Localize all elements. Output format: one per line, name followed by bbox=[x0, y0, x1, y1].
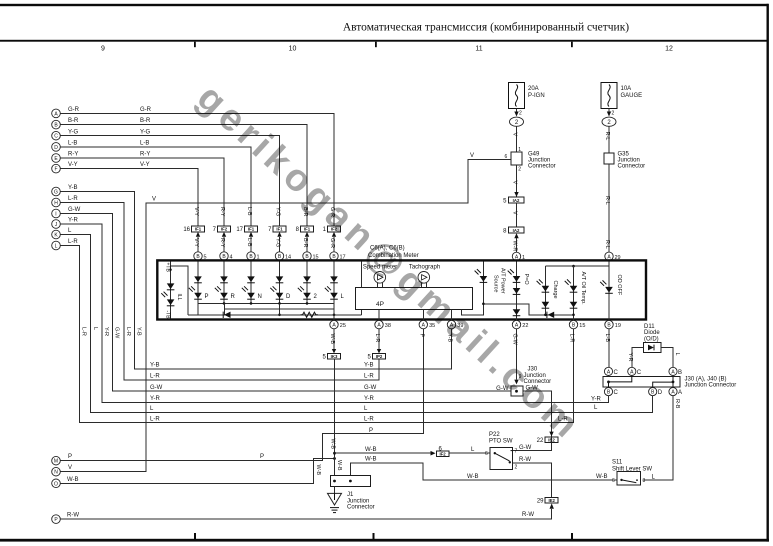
svg-text:ILL: ILL bbox=[176, 294, 182, 301]
internal top bus from A29 bbox=[545, 265, 609, 267]
svg-text:L-B: L-B bbox=[604, 334, 610, 343]
wire bottom to 4P box bbox=[361, 309, 363, 314]
svg-text:5: 5 bbox=[503, 199, 507, 205]
svg-text:P: P bbox=[369, 428, 373, 434]
wire R-B junction AA to S11 pin 3 bbox=[643, 396, 673, 480]
wire R-L G35 to meter A29 bbox=[608, 164, 610, 252]
svg-text:H: H bbox=[54, 201, 58, 207]
svg-text:F: F bbox=[54, 167, 57, 173]
svg-text:V-Y: V-Y bbox=[193, 207, 199, 216]
svg-text:W-B: W-B bbox=[330, 439, 336, 450]
junction connector G49 bbox=[505, 147, 556, 173]
svg-text:22: 22 bbox=[522, 323, 528, 329]
svg-text:P-IGN: P-IGN bbox=[528, 93, 545, 99]
wire G-W J30 to 22 IE2 bbox=[513, 391, 552, 450]
inline connector 5 IP2 bbox=[367, 349, 385, 361]
svg-text:V: V bbox=[512, 181, 518, 185]
internal tap N column bbox=[224, 303, 226, 314]
svg-text:L: L bbox=[55, 244, 58, 250]
junction dot W-B branch bbox=[333, 452, 336, 455]
fuse 2 pin arrow bbox=[608, 109, 610, 113]
svg-text:G-R: G-R bbox=[140, 107, 152, 113]
svg-text:R: R bbox=[231, 294, 236, 300]
svg-text:L: L bbox=[364, 406, 368, 412]
connector pin C bbox=[52, 131, 61, 140]
svg-text:20A: 20A bbox=[528, 86, 539, 92]
svg-text:G-W: G-W bbox=[364, 385, 377, 391]
svg-text:L-R: L-R bbox=[68, 239, 78, 245]
wire L-B from D to column 3 bbox=[60, 147, 251, 226]
wire R-L fuse to G35 bbox=[608, 126, 610, 153]
junction connector J1 bbox=[330, 476, 374, 511]
svg-text:Y-B: Y-B bbox=[364, 362, 373, 368]
svg-text:M: M bbox=[54, 459, 58, 465]
connector pin A bbox=[52, 109, 61, 118]
meter pin B15 top bbox=[303, 252, 311, 260]
inline connector 5 IK3 bbox=[322, 349, 340, 361]
speedometer bbox=[363, 264, 397, 287]
wire W-R IA2 to meter A1 bbox=[516, 238, 518, 252]
svg-text:2: 2 bbox=[519, 111, 522, 117]
svg-text:6: 6 bbox=[612, 478, 615, 484]
svg-text:G-W: G-W bbox=[114, 327, 120, 339]
ground symbol J1 bbox=[328, 487, 342, 513]
wire R-Y from E to column 2 bbox=[60, 158, 224, 226]
inline connector 17 IF1 column L-B bbox=[236, 207, 257, 252]
svg-text:IF1: IF1 bbox=[195, 227, 202, 232]
svg-text:11: 11 bbox=[475, 46, 482, 53]
svg-text:L: L bbox=[594, 405, 598, 411]
indicator lamp L bbox=[325, 262, 345, 303]
svg-text:L-B: L-B bbox=[68, 141, 77, 147]
svg-text:L-R: L-R bbox=[150, 373, 160, 379]
wire W-B IK3 to J1 bbox=[334, 359, 336, 476]
ruler tick 1 bbox=[194, 42, 196, 48]
wire G-R from A to column 6 bbox=[60, 113, 334, 226]
svg-text:R-W: R-W bbox=[67, 513, 79, 519]
svg-text:IF2: IF2 bbox=[221, 227, 228, 232]
meter pin A38 bbox=[375, 320, 383, 328]
svg-text:IF2: IF2 bbox=[439, 451, 446, 456]
svg-text:L-B: L-B bbox=[246, 238, 252, 247]
svg-text:V-Y: V-Y bbox=[140, 162, 150, 168]
svg-text:10: 10 bbox=[289, 46, 297, 53]
junction connector J30 bbox=[496, 367, 551, 396]
svg-text:8: 8 bbox=[296, 227, 300, 233]
inline connector 8 IA2 bbox=[503, 227, 524, 238]
bottom tick 2 bbox=[373, 533, 375, 539]
svg-text:Y-G: Y-G bbox=[140, 129, 150, 135]
connector pin D bbox=[52, 143, 61, 152]
svg-text:(O/D): (O/D) bbox=[644, 336, 659, 342]
svg-text:P=O: P=O bbox=[523, 274, 529, 286]
svg-text:22: 22 bbox=[537, 438, 544, 444]
svg-text:PTO SW: PTO SW bbox=[489, 439, 513, 445]
svg-text:IE2: IE2 bbox=[548, 498, 555, 503]
svg-text:Junction Connector: Junction Connector bbox=[685, 383, 737, 389]
lamp A/T oil temp bbox=[565, 266, 586, 320]
svg-text:G-W: G-W bbox=[150, 385, 163, 391]
svg-text:L: L bbox=[150, 406, 154, 412]
svg-text:W-B: W-B bbox=[365, 447, 377, 453]
svg-text:D11: D11 bbox=[644, 324, 655, 330]
svg-text:Connector: Connector bbox=[347, 505, 375, 511]
svg-text:Y-R: Y-R bbox=[68, 218, 78, 224]
svg-text:A/T Oil Temp.: A/T Oil Temp. bbox=[580, 272, 586, 306]
svg-text:1: 1 bbox=[518, 147, 521, 153]
switch P22 PTO SW bbox=[485, 432, 517, 470]
svg-text:G-R: G-R bbox=[68, 107, 80, 113]
wire Y-R D11 to junction AC2 bbox=[632, 348, 644, 368]
svg-text:Y-R: Y-R bbox=[591, 396, 601, 402]
svg-text:B-R: B-R bbox=[68, 118, 79, 124]
svg-text:Connector: Connector bbox=[618, 164, 646, 170]
svg-text:IF1: IF1 bbox=[276, 227, 283, 232]
svg-text:Source: Source bbox=[493, 275, 499, 292]
svg-text:5: 5 bbox=[367, 355, 371, 361]
wire B-R from B to column 5 bbox=[60, 125, 307, 226]
svg-text:2: 2 bbox=[612, 111, 615, 117]
bottom tick 1 bbox=[194, 533, 196, 539]
svg-text:7: 7 bbox=[213, 227, 217, 233]
svg-text:V: V bbox=[152, 196, 156, 202]
fuse 10A GAUGE bbox=[601, 83, 642, 109]
indicator lamp P bbox=[189, 262, 209, 303]
svg-text:R-L: R-L bbox=[604, 240, 610, 249]
svg-text:29: 29 bbox=[537, 498, 544, 504]
frame ruler line bbox=[0, 40, 769, 42]
bottom tick 3 bbox=[571, 533, 573, 539]
svg-text:17: 17 bbox=[236, 227, 243, 233]
connector pin G bbox=[52, 187, 61, 196]
connector pin P bbox=[52, 515, 61, 524]
wire G-W from I to J30 junction connector bbox=[60, 214, 511, 392]
svg-text:15: 15 bbox=[579, 323, 585, 329]
svg-text:IA2: IA2 bbox=[513, 228, 520, 233]
meter pin B5 bbox=[194, 252, 202, 260]
meter pin B15 bottom bbox=[569, 320, 577, 328]
internal middle wire bbox=[225, 308, 335, 310]
svg-text:V: V bbox=[512, 133, 518, 137]
oval connector 2 bbox=[602, 117, 616, 126]
switch S11 shift lever bbox=[612, 460, 652, 485]
svg-text:IK3: IK3 bbox=[331, 354, 338, 359]
svg-text:R-W: R-W bbox=[522, 512, 534, 518]
wire L-R A38 to connector IP2 bbox=[378, 329, 380, 350]
connector pin I bbox=[52, 209, 61, 218]
svg-text:5: 5 bbox=[322, 355, 326, 361]
svg-text:A/T Power: A/T Power bbox=[500, 268, 506, 294]
svg-text:-TB: -TB bbox=[165, 311, 171, 320]
wire Y-B from G to A39 bbox=[60, 192, 451, 369]
svg-text:W-B: W-B bbox=[467, 474, 479, 480]
wire L-R from L to meter B15 bbox=[60, 246, 573, 423]
svg-text:Y-B: Y-B bbox=[68, 185, 77, 191]
wire W-B from O to J1 bbox=[60, 459, 334, 484]
diode left-pointing internal bbox=[222, 312, 224, 318]
svg-text:O: O bbox=[54, 481, 58, 487]
svg-text:V: V bbox=[68, 465, 72, 471]
svg-text:L: L bbox=[341, 294, 345, 300]
wire L-B B19 to junction AC bbox=[608, 329, 610, 368]
svg-text:R-Y: R-Y bbox=[68, 152, 78, 158]
svg-text:C: C bbox=[614, 390, 619, 396]
meter pin B14 bbox=[275, 252, 283, 260]
wire 4P to A35 bbox=[422, 309, 424, 320]
svg-text:W-R: W-R bbox=[512, 241, 518, 252]
svg-text:8: 8 bbox=[503, 228, 507, 234]
diode left-pointing internal right bbox=[546, 312, 548, 318]
svg-text:9: 9 bbox=[101, 46, 105, 53]
svg-text:2: 2 bbox=[314, 294, 318, 300]
inline connector 8 IF1 column B-R bbox=[296, 207, 314, 252]
svg-text:C: C bbox=[637, 370, 642, 376]
ruler tick 3 bbox=[571, 42, 573, 48]
svg-text:gerikogan@gmail.com: gerikogan@gmail.com bbox=[189, 77, 590, 449]
svg-text:L-R: L-R bbox=[81, 327, 87, 336]
watermark bbox=[189, 77, 590, 449]
lamp return bus bbox=[198, 302, 334, 304]
meter pin B19 bbox=[605, 320, 613, 328]
svg-text:L-R: L-R bbox=[364, 373, 374, 379]
connector pin L bbox=[52, 241, 61, 250]
meter pin A29 bbox=[605, 252, 613, 260]
svg-text:L: L bbox=[68, 228, 72, 234]
svg-text:B-R: B-R bbox=[140, 118, 151, 124]
svg-text:2: 2 bbox=[518, 167, 521, 173]
svg-text:L: L bbox=[471, 447, 475, 453]
connector 4P box bbox=[356, 288, 473, 310]
svg-text:R-Y: R-Y bbox=[219, 207, 225, 217]
fuse 20A P-IGN bbox=[509, 83, 545, 109]
junction connector G35 bbox=[604, 152, 645, 170]
svg-text:G-W: G-W bbox=[519, 445, 532, 451]
wire L-R from H to A38 bbox=[60, 203, 379, 380]
svg-text:V: V bbox=[512, 211, 518, 215]
svg-text:L: L bbox=[652, 474, 656, 480]
svg-text:Y-B: Y-B bbox=[150, 362, 159, 368]
inline connector 29 IE2 bbox=[537, 497, 558, 509]
svg-text:IF1: IF1 bbox=[304, 227, 311, 232]
indicator lamp 2 bbox=[298, 262, 318, 303]
svg-text:N: N bbox=[258, 294, 262, 300]
svg-text:Y-R: Y-R bbox=[627, 353, 633, 362]
svg-text:L-R: L-R bbox=[364, 416, 374, 422]
connector pin K bbox=[52, 230, 61, 239]
svg-text:A: A bbox=[678, 390, 682, 396]
svg-text:GAUGE: GAUGE bbox=[621, 93, 643, 99]
wire L IF2 to P22 pin 6 bbox=[449, 452, 490, 454]
wire P from M to A35 bbox=[60, 329, 423, 461]
svg-text:7: 7 bbox=[268, 227, 272, 233]
svg-text:16: 16 bbox=[183, 227, 190, 233]
svg-text:D: D bbox=[286, 294, 291, 300]
meter pin A22 bbox=[512, 320, 520, 328]
wire W-B A25 to connector IK3 bbox=[333, 329, 335, 350]
svg-text:L: L bbox=[92, 327, 98, 330]
wire L D11 to junction AB bbox=[661, 348, 673, 368]
svg-text:L-R: L-R bbox=[68, 196, 78, 202]
svg-text:P: P bbox=[260, 454, 264, 460]
svg-text:G: G bbox=[54, 190, 58, 196]
svg-text:P: P bbox=[205, 294, 209, 300]
connector pin M bbox=[52, 456, 61, 465]
svg-text:6: 6 bbox=[485, 451, 488, 457]
svg-text:B-R: B-R bbox=[302, 238, 308, 248]
svg-text:7: 7 bbox=[515, 449, 518, 455]
wire Y-R from J to junction J40 pin C bbox=[60, 224, 608, 402]
svg-text:C: C bbox=[614, 370, 619, 376]
svg-text:L: L bbox=[674, 353, 680, 356]
svg-text:J30 (A), J40 (B): J30 (A), J40 (B) bbox=[685, 376, 727, 382]
svg-text:Y-R: Y-R bbox=[103, 327, 109, 336]
inline connector 7 IF2 column R-Y bbox=[213, 207, 231, 252]
connector pin J bbox=[52, 220, 61, 229]
svg-text:C: C bbox=[54, 134, 58, 140]
svg-text:L-R: L-R bbox=[150, 416, 160, 422]
connector pin F bbox=[52, 164, 61, 173]
connector pin B bbox=[52, 120, 61, 129]
connector pin O bbox=[52, 479, 61, 488]
svg-text:G-W: G-W bbox=[68, 207, 81, 213]
svg-text:Y-G: Y-G bbox=[274, 207, 280, 216]
svg-text:W-B: W-B bbox=[329, 334, 335, 345]
svg-text:2: 2 bbox=[515, 464, 518, 470]
svg-text:L-R: L-R bbox=[374, 334, 380, 343]
resistor internal bbox=[301, 312, 318, 317]
inline connector 5 IA2 bbox=[503, 192, 524, 205]
combination meter C6 box bbox=[157, 260, 646, 319]
svg-text:IF1: IF1 bbox=[248, 227, 255, 232]
indicator lamp D bbox=[270, 262, 291, 303]
svg-text:R-W: R-W bbox=[519, 457, 531, 463]
svg-text:W-B: W-B bbox=[336, 460, 342, 471]
svg-text:Diode: Diode bbox=[644, 330, 660, 336]
wire V-Y from F to column 1 bbox=[60, 169, 198, 226]
junction dot bottom wire at L column bbox=[333, 314, 336, 317]
svg-text:6: 6 bbox=[505, 154, 508, 160]
svg-text:D: D bbox=[658, 390, 663, 396]
diode chain A1 to A22 bbox=[508, 262, 529, 320]
wire 4P to A39 bbox=[451, 309, 453, 320]
svg-text:P: P bbox=[68, 454, 72, 460]
svg-text:4P: 4P bbox=[376, 301, 384, 308]
illumination column +TB bbox=[161, 262, 182, 320]
wire W-B branch to 6 IF2 bbox=[335, 452, 431, 454]
meter pin A39 bbox=[447, 320, 455, 328]
svg-text:L-B: L-B bbox=[140, 141, 149, 147]
connector pin E bbox=[52, 154, 61, 163]
indicator lamp R bbox=[215, 262, 236, 303]
svg-text:I: I bbox=[55, 212, 56, 218]
wire R-W from P to connector 29 IE2 bbox=[60, 509, 551, 519]
svg-text:+TB: +TB bbox=[165, 263, 171, 273]
meter pin A25 bbox=[330, 320, 338, 328]
svg-text:Автоматическая трансмиссия (ко: Автоматическая трансмиссия (комбинирован… bbox=[343, 22, 629, 34]
svg-text:P: P bbox=[419, 334, 425, 338]
svg-text:R-L: R-L bbox=[604, 132, 610, 141]
svg-text:IP2: IP2 bbox=[376, 354, 383, 359]
connector pin N bbox=[52, 467, 61, 476]
wire V from N to G49 pin 6 bbox=[60, 159, 511, 471]
internal wire 4P to oil temp column bbox=[462, 304, 574, 315]
internal bottom wire with diode bbox=[188, 314, 361, 316]
svg-text:W-B: W-B bbox=[67, 477, 79, 483]
svg-text:Y-B: Y-B bbox=[136, 327, 142, 336]
inline connector 16 IF1 column V-Y bbox=[183, 207, 204, 252]
fuse pin 2 arrow bbox=[516, 109, 518, 113]
svg-text:19: 19 bbox=[615, 323, 621, 329]
inline connector 22 IE2 bbox=[537, 432, 558, 444]
oval connector 2 bbox=[510, 117, 524, 126]
wire V fuse to G49 bbox=[516, 126, 518, 152]
svg-text:D: D bbox=[54, 145, 58, 151]
svg-text:S11: S11 bbox=[612, 460, 623, 466]
svg-text:Y-R: Y-R bbox=[364, 396, 374, 402]
svg-text:V-Y: V-Y bbox=[68, 162, 78, 168]
svg-text:25: 25 bbox=[340, 323, 346, 329]
svg-text:Junction: Junction bbox=[347, 498, 369, 504]
diode D11 O/D bbox=[644, 324, 662, 353]
junction connector J30A J40B bbox=[603, 367, 736, 396]
inline connector 1 IF2 column G-R bbox=[323, 207, 341, 252]
lamp OD OFF bbox=[600, 262, 622, 320]
svg-text:Y-G: Y-G bbox=[68, 129, 78, 135]
svg-text:G-W: G-W bbox=[512, 334, 518, 346]
svg-text:P22: P22 bbox=[489, 432, 500, 438]
svg-text:V: V bbox=[470, 153, 474, 159]
svg-text:Y-G: Y-G bbox=[274, 238, 280, 247]
indicator lamp N bbox=[242, 262, 262, 303]
svg-text:L-R: L-R bbox=[569, 334, 575, 343]
meter pin B1 bbox=[247, 252, 255, 260]
svg-text:38: 38 bbox=[385, 323, 391, 329]
lamp charge bbox=[537, 266, 558, 316]
wire V IA2 to IA2 bbox=[516, 203, 518, 227]
svg-text:J1: J1 bbox=[347, 492, 354, 498]
junction dot O wire to A25 wire bbox=[333, 457, 336, 460]
svg-text:12: 12 bbox=[665, 46, 673, 53]
svg-text:Y-R: Y-R bbox=[150, 396, 160, 402]
ruler tick 2 bbox=[375, 42, 377, 48]
wire V G49 to connector 5 IA2 bbox=[516, 165, 518, 197]
wire W-B to S11 pin 6 bbox=[350, 463, 617, 480]
svg-text:W-B: W-B bbox=[365, 456, 377, 462]
wire A25 drop bbox=[333, 303, 335, 320]
wire G-W A22 to J30 bbox=[516, 329, 518, 380]
svg-text:B: B bbox=[678, 370, 682, 376]
svg-text:10A: 10A bbox=[621, 86, 632, 92]
svg-text:Charge: Charge bbox=[552, 281, 558, 299]
svg-text:Connector: Connector bbox=[528, 164, 556, 170]
svg-text:R-B: R-B bbox=[674, 399, 680, 409]
svg-text:V-Y: V-Y bbox=[193, 238, 199, 247]
meter pin A1 bbox=[512, 252, 520, 260]
svg-text:R-Y: R-Y bbox=[219, 238, 225, 248]
meter pin B4 bbox=[220, 252, 228, 260]
wire R-W P22 pin2 to 29 IE2 bbox=[513, 463, 552, 497]
svg-text:W-B: W-B bbox=[315, 465, 321, 476]
illumination feed wire bbox=[171, 266, 189, 315]
inline connector 7 IF1 column Y-G bbox=[268, 207, 286, 252]
svg-text:W-B: W-B bbox=[596, 474, 608, 480]
lamp A/T power source bbox=[475, 262, 506, 306]
frame top border bbox=[0, 4, 769, 6]
wire 4P to A38 bbox=[378, 309, 380, 320]
frame right border bbox=[767, 4, 769, 542]
wire Y-G from C to column 4 bbox=[60, 136, 279, 226]
wire meter top edge into 4P bbox=[361, 262, 363, 288]
